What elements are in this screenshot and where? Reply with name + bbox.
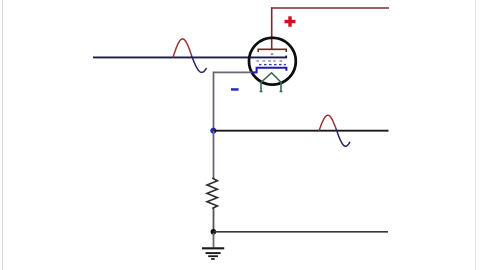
wire: cathode vertical down to output node [213, 72, 215, 131]
resistor Rk zigzag [207, 178, 217, 209]
tube V1: heater filament [260, 73, 283, 92]
wire: output horizontal [213, 130, 388, 132]
node: ground junction dot [211, 229, 217, 235]
tube V1: control grid dashes (blue) [259, 64, 286, 66]
tube V1: envelope circle [249, 38, 296, 85]
label - (cathode polarity) [231, 88, 239, 91]
tube V1: grid solid lead line [250, 56, 287, 58]
tube V1: plate (anode) bar [258, 49, 288, 52]
wire: node down to ground symbol [213, 233, 215, 247]
wire: resistor down to ground node [213, 209, 215, 232]
left frame line [2, 0, 4, 270]
output sine wave (red positive half) [319, 115, 336, 131]
tube V1: grid lead junction mark [271, 53, 273, 55]
wire: plate supply vertical drop to tube [271, 7, 273, 49]
node: output junction dot [210, 128, 216, 134]
wire: input signal horizontal [93, 56, 250, 58]
tube V1: cathode [252, 68, 287, 73]
wire: node down to resistor [213, 131, 215, 178]
wire: plate supply horizontal (B+) [272, 7, 389, 9]
input sine wave (red positive half) [173, 39, 191, 58]
output sine wave (blue negative half) [336, 129, 350, 146]
input sine wave (blue negative half) [191, 55, 206, 72]
ground symbol [202, 248, 224, 259]
label + (B+ polarity) [285, 16, 296, 26]
wire: cathode horizontal to left [214, 71, 252, 73]
right frame line [475, 0, 477, 270]
tube V1: screen grid dashes [257, 60, 283, 62]
wire: ground-level horizontal to right [213, 231, 388, 233]
